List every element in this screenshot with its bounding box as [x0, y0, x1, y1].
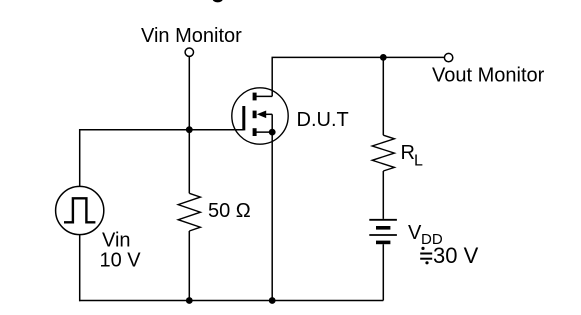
junction input node / 50 ohm top [186, 126, 193, 133]
wire input node to pulse source [79, 129, 81, 187]
wire Vin Monitor vertical [188, 57, 190, 130]
wire RL to battery [382, 171, 384, 219]
pulse waveform symbol [64, 198, 95, 222]
junction bottom rail / source [269, 297, 276, 304]
wire battery to bottom rail [382, 244, 384, 300]
svg-text:50 Ω: 50 Ω [208, 200, 251, 222]
svg-text:10 V: 10 V [100, 250, 142, 272]
wire source to bottom rail [271, 132, 273, 300]
svg-text:R: R [401, 142, 415, 164]
wire bottom rail [79, 300, 383, 302]
wire top rail (drain to Vout) [272, 56, 445, 58]
battery VDD [369, 220, 397, 243]
wire input horizontal (gate net) [80, 129, 244, 131]
wire drain up [271, 57, 273, 96]
svg-text:30 V: 30 V [433, 243, 479, 268]
transistor D.U.T (MOSFET) [232, 88, 288, 144]
svg-text:Vin Monitor: Vin Monitor [141, 25, 242, 47]
wire 50 ohm top lead [188, 130, 190, 194]
resistor RL [372, 135, 394, 171]
junction bottom rail / 50 ohm [186, 297, 193, 304]
svg-text:Vin: Vin [102, 230, 131, 252]
svg-text:V: V [408, 222, 422, 244]
svg-text:Vout Monitor: Vout Monitor [432, 64, 545, 86]
terminal Vin Monitor [185, 48, 193, 56]
terminal Vout Monitor [444, 53, 452, 61]
svg-text:L: L [414, 153, 423, 170]
wire 50 ohm bottom lead [188, 231, 190, 301]
svg-text:D.U.T: D.U.T [297, 109, 349, 131]
junction top rail / RL [380, 54, 387, 61]
wire RL top lead [382, 57, 384, 135]
pulse generator Vin circle [56, 186, 104, 234]
label approx 30 V [420, 243, 478, 268]
junction source / body tie [269, 129, 276, 136]
truncated title descender (cut-off letter g) [213, 0, 223, 2]
resistor 50 ohm [178, 193, 200, 231]
wire pulse source to bottom rail [79, 235, 81, 302]
